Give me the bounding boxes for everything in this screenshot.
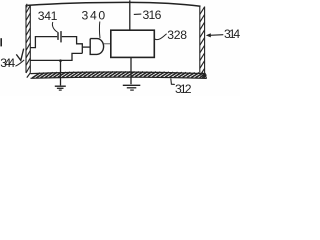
ground center <box>123 84 141 86</box>
leader 316 dash <box>134 13 142 15</box>
svg-text:312: 312 <box>175 82 192 96</box>
connector 344 <box>16 49 23 61</box>
svg-text:344: 344 <box>0 56 15 70</box>
svg-text:316: 316 <box>143 8 162 22</box>
arrow 314 <box>210 34 224 37</box>
leader 341 <box>52 22 57 32</box>
leader 344 <box>15 60 24 66</box>
capacitor 341 <box>57 32 59 40</box>
gate output wire <box>104 43 111 45</box>
wall top-left nub <box>26 4 28 8</box>
box 328 <box>111 30 155 57</box>
svg-text:328: 328 <box>167 28 187 42</box>
wall left (hatched) <box>26 5 31 78</box>
ground left <box>55 85 66 87</box>
lead box to ground <box>130 58 132 85</box>
wire lower input <box>30 53 82 60</box>
lead left circuit to ground <box>60 61 62 86</box>
wire gate feed <box>82 46 90 48</box>
junction node <box>59 59 62 62</box>
wall right 314 (hatched) <box>200 6 206 78</box>
leader 340 <box>98 22 101 39</box>
edge mark left <box>0 38 2 46</box>
svg-text:341: 341 <box>38 9 58 23</box>
wire capacitor to gate <box>62 37 83 54</box>
svg-text:340: 340 <box>82 9 106 23</box>
wall top <box>28 2 201 6</box>
wall bottom 312 (hatched) <box>31 72 207 79</box>
input lead 316 <box>129 0 131 30</box>
svg-text:314: 314 <box>224 27 240 41</box>
wire wall to capacitor <box>30 37 57 48</box>
AND gate 340 <box>90 39 103 55</box>
leader 328 <box>155 34 167 40</box>
leader 312 <box>171 78 175 84</box>
